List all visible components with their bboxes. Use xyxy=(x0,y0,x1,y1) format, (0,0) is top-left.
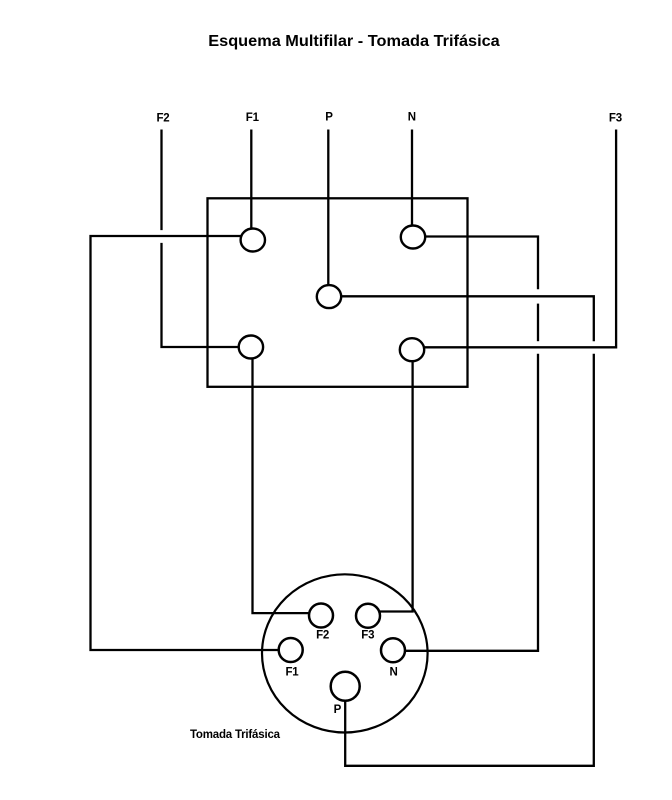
wire P stub xyxy=(327,130,329,286)
terminal box xyxy=(208,198,468,386)
svg-text:F1: F1 xyxy=(285,666,299,678)
socket pin F3 xyxy=(356,604,380,628)
svg-text:F1: F1 xyxy=(246,112,260,124)
socket pin P xyxy=(331,672,360,701)
svg-text:N: N xyxy=(408,112,416,124)
socket pin N xyxy=(381,638,405,662)
box terminal F2 (lower-left) xyxy=(239,336,263,359)
socket outline (Tomada Trifasica) xyxy=(262,574,428,732)
wire N route middle segment (gaps at crossings) xyxy=(537,304,539,342)
wire F1 stub xyxy=(250,130,252,230)
box terminal P (middle) xyxy=(317,285,341,308)
svg-text:N: N xyxy=(389,667,397,679)
wire F3 down: box lower-right terminal to socket F3 pin xyxy=(380,361,413,611)
wire N stub xyxy=(411,130,413,227)
socket pin F1 xyxy=(279,638,303,662)
svg-text:P: P xyxy=(325,112,333,124)
wire P route lower segment to socket P pin xyxy=(345,354,594,766)
svg-text:Esquema Multifilar - Tomada Tr: Esquema Multifilar - Tomada Trifásica xyxy=(208,33,500,50)
svg-text:P: P xyxy=(334,704,342,716)
wire N route lower segment to socket N pin xyxy=(405,354,538,651)
svg-text:F2: F2 xyxy=(156,112,169,124)
wire F2 down: box lower-left terminal to socket F2 pin xyxy=(253,358,310,613)
socket pin F2 xyxy=(309,604,333,628)
wire F3 to box lower-right terminal xyxy=(424,130,616,348)
wire N route: box upper-right terminal right then down xyxy=(425,237,538,290)
box terminal F1 (upper-left) xyxy=(241,229,265,252)
wire F1 route: box upper-left terminal to socket F1 pin xyxy=(91,236,279,650)
svg-text:Tomada Trifásica: Tomada Trifásica xyxy=(190,729,281,741)
svg-text:F3: F3 xyxy=(361,629,374,641)
svg-text:F3: F3 xyxy=(609,113,622,125)
wire F2 stub (upper segment, gap at crossing) xyxy=(160,130,162,231)
svg-text:F2: F2 xyxy=(316,629,329,641)
box terminal F3 (lower-right) xyxy=(400,338,424,361)
box terminal N (upper-right) xyxy=(401,226,425,249)
wire P route: box middle terminal right xyxy=(341,296,594,341)
wire F2 to box lower-left terminal xyxy=(162,243,239,347)
